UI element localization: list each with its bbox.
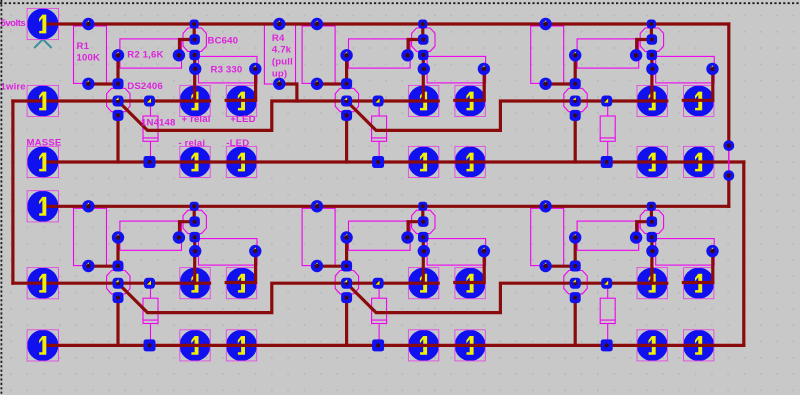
svg-text:-LED: -LED	[226, 138, 249, 149]
svg-text:100K: 100K	[77, 52, 101, 63]
svg-text:5volts: 5volts	[1, 18, 26, 29]
svg-text:R1: R1	[77, 41, 90, 52]
svg-text:1wire: 1wire	[1, 82, 26, 93]
svg-text:MASSE: MASSE	[27, 138, 62, 149]
svg-text:1N4148: 1N4148	[141, 118, 176, 129]
svg-text:(pull: (pull	[272, 56, 293, 67]
svg-text:+LED: +LED	[230, 114, 255, 125]
svg-text:+ relai: + relai	[182, 114, 211, 125]
svg-text:DS2406: DS2406	[127, 81, 163, 92]
svg-text:R3 330: R3 330	[211, 64, 243, 75]
svg-text:4.7k: 4.7k	[272, 45, 292, 56]
svg-text:R4: R4	[272, 33, 285, 44]
svg-text:R2 1,6K: R2 1,6K	[127, 50, 163, 61]
svg-text:up): up)	[272, 68, 287, 79]
svg-text:BC640: BC640	[208, 35, 239, 46]
svg-text:- relai: - relai	[179, 138, 206, 149]
